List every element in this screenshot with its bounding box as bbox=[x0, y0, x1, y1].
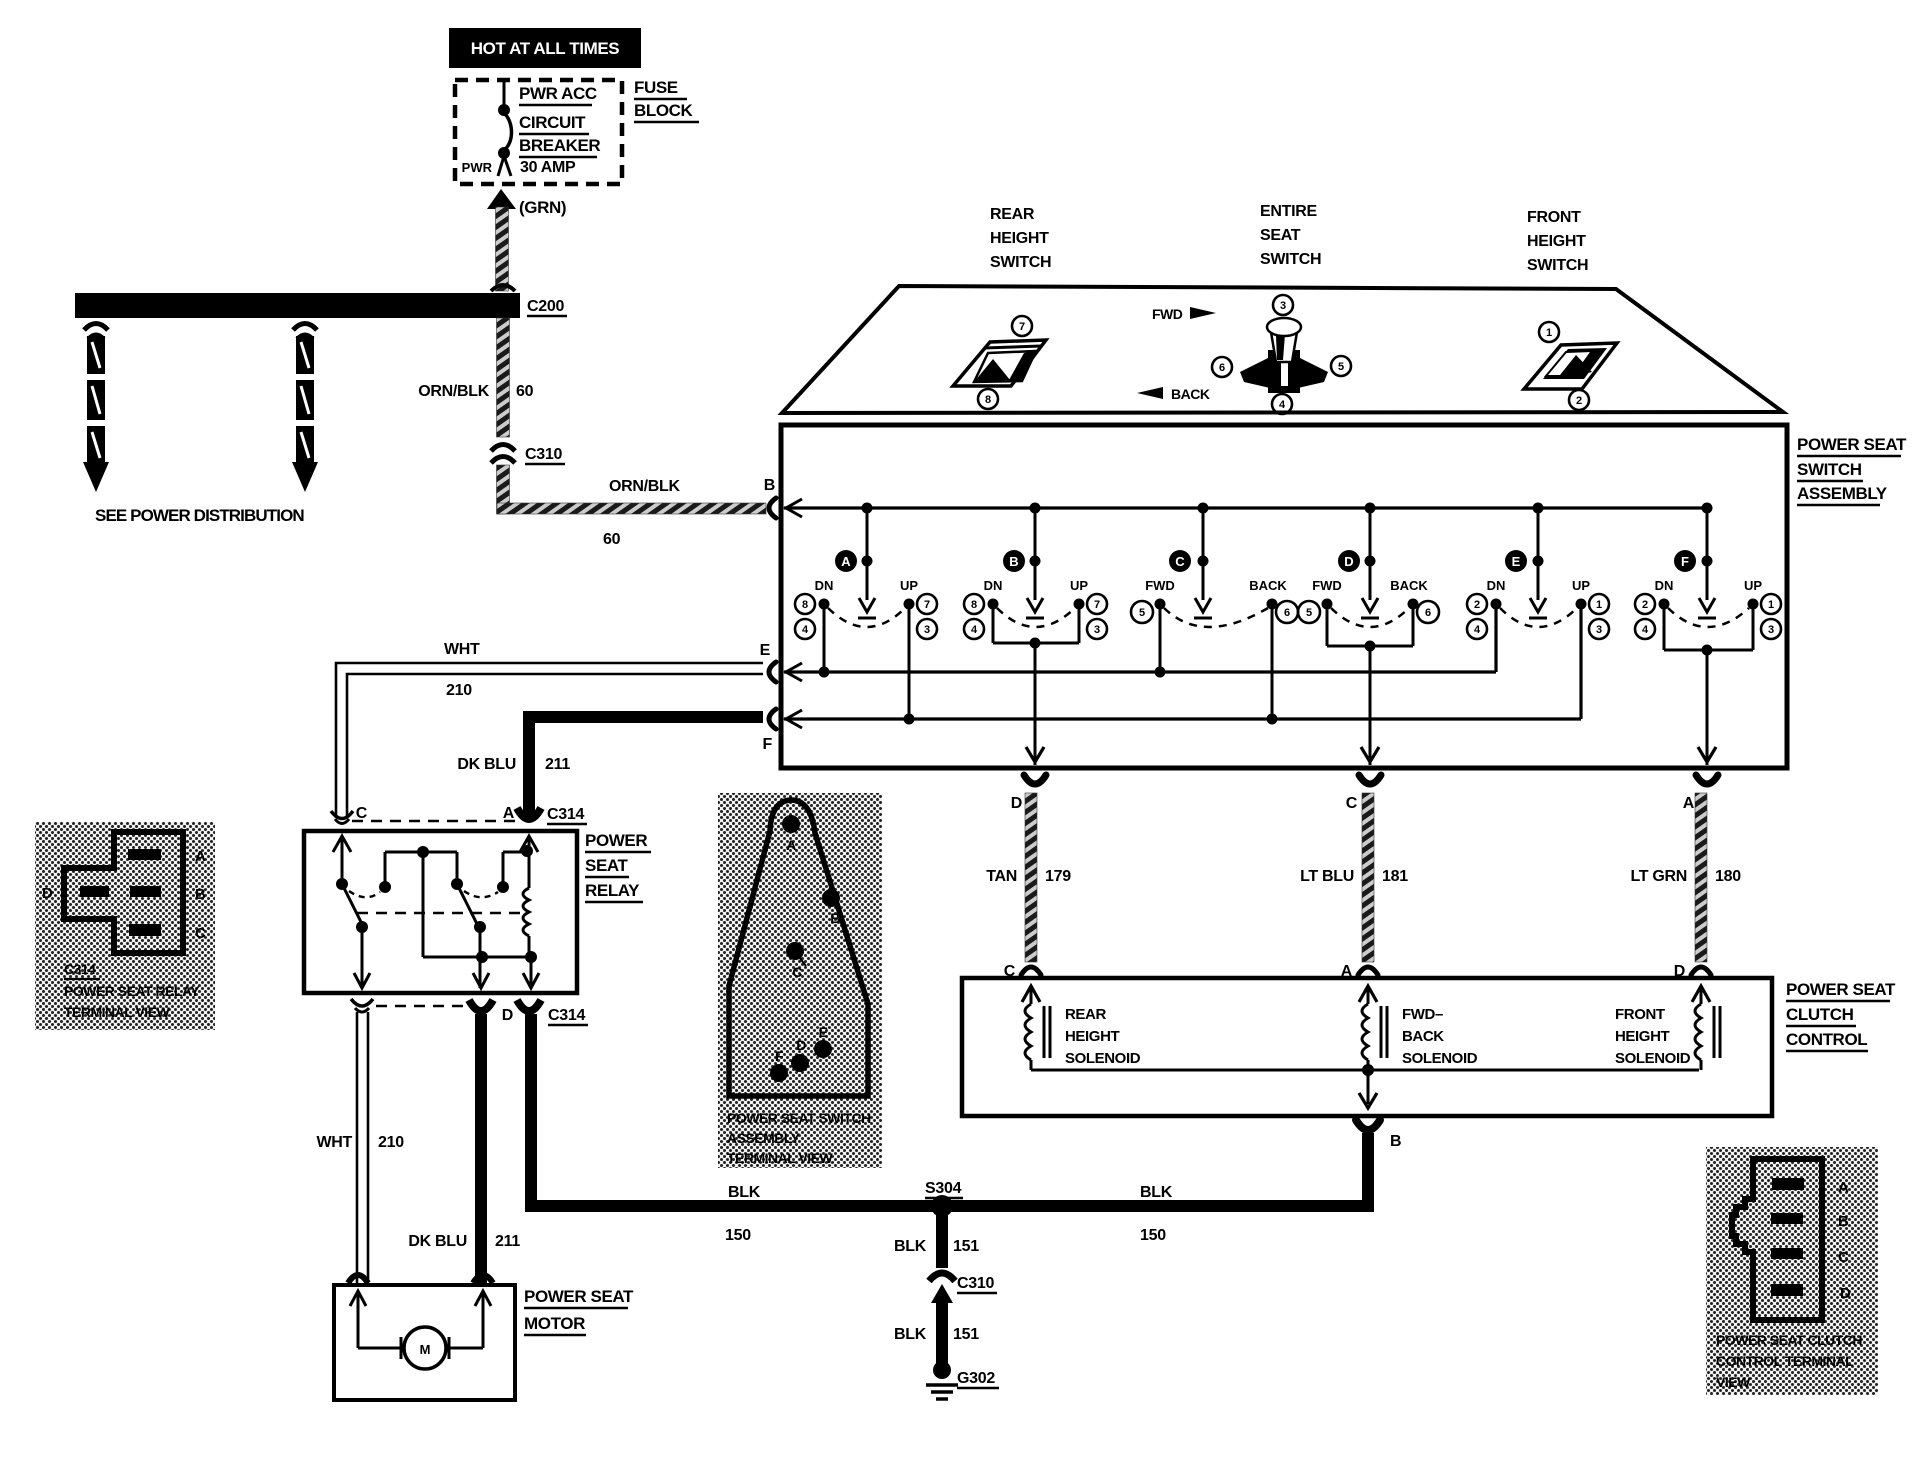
svg-text:A: A bbox=[195, 848, 206, 865]
terminal D bbox=[791, 1037, 809, 1072]
label ENTIRE SEAT SWITCH bbox=[1260, 203, 1321, 268]
label FRONT HEIGHT SWITCH bbox=[1527, 209, 1588, 274]
switch E label bbox=[1505, 550, 1527, 572]
clutch control internal common wire bbox=[1031, 1064, 1699, 1108]
svg-text:FUSE: FUSE bbox=[634, 78, 678, 97]
svg-text:F: F bbox=[763, 736, 773, 753]
svg-text:C314: C314 bbox=[547, 806, 584, 823]
svg-text:7: 7 bbox=[924, 599, 930, 611]
svg-text:FWD–: FWD– bbox=[1402, 1006, 1443, 1023]
svg-text:1: 1 bbox=[1596, 599, 1602, 611]
svg-text:HEIGHT: HEIGHT bbox=[1615, 1028, 1670, 1045]
pin 4 bbox=[1272, 394, 1292, 414]
svg-text:SWITCH: SWITCH bbox=[1260, 251, 1321, 268]
svg-text:3: 3 bbox=[924, 624, 930, 636]
switch D pin 6 bbox=[1417, 601, 1439, 623]
svg-text:LT BLU: LT BLU bbox=[1300, 868, 1354, 885]
svg-text:179: 179 bbox=[1045, 868, 1071, 885]
label POWER SEAT CLUTCH CONTROL bbox=[1786, 980, 1896, 1051]
switch A wiper bbox=[858, 503, 876, 619]
label G302 bbox=[957, 1370, 999, 1388]
switch D pin 5 bbox=[1298, 601, 1320, 623]
svg-text:C314: C314 bbox=[64, 961, 96, 977]
switch F pin 3 bbox=[1761, 619, 1781, 639]
slot B bbox=[130, 886, 161, 897]
clutch terminal C bbox=[1004, 963, 1041, 1002]
slot A bbox=[1772, 1178, 1804, 1190]
entire seat switch joystick bbox=[1240, 318, 1328, 393]
svg-text:ORN/BLK: ORN/BLK bbox=[609, 478, 681, 495]
switch B wiper bbox=[1026, 503, 1044, 619]
svg-text:FRONT: FRONT bbox=[1527, 209, 1581, 226]
svg-text:180: 180 bbox=[1715, 868, 1741, 885]
switch C stems to E and F buses bbox=[1155, 604, 1278, 725]
svg-text:F: F bbox=[1681, 554, 1689, 569]
wire BLK 150 (relay to S304 to clutch B) bbox=[531, 1014, 1368, 1206]
svg-text:BACK: BACK bbox=[1390, 578, 1428, 593]
pin 1 bbox=[1539, 322, 1559, 342]
svg-text:LT GRN: LT GRN bbox=[1630, 868, 1687, 885]
svg-text:FWD: FWD bbox=[1152, 306, 1183, 322]
switch assembly connector outline bbox=[729, 800, 868, 1096]
label C314 bbox=[547, 806, 587, 824]
label POWER SEAT MOTOR bbox=[524, 1287, 634, 1335]
svg-text:UP: UP bbox=[1572, 578, 1590, 593]
label C314 terminal view bbox=[64, 961, 200, 1020]
motor M bbox=[358, 1291, 483, 1369]
connector C200 (bulkhead bar) bbox=[75, 285, 520, 318]
svg-text:S304: S304 bbox=[925, 1180, 962, 1197]
svg-text:POWER SEAT CLUTCH: POWER SEAT CLUTCH bbox=[1716, 1332, 1862, 1348]
svg-text:CIRCUIT: CIRCUIT bbox=[519, 113, 586, 132]
svg-text:B: B bbox=[1838, 1213, 1849, 1230]
fwd-back solenoid coil bbox=[1362, 986, 1387, 1070]
label ORN/BLK 60 (horizontal) bbox=[603, 478, 681, 548]
fuse block (dashed box) bbox=[455, 80, 622, 184]
rear height solenoid coil bbox=[1025, 986, 1050, 1070]
svg-text:1: 1 bbox=[1546, 327, 1552, 339]
svg-text:SEAT: SEAT bbox=[585, 856, 628, 875]
label BLK 151 bbox=[894, 1238, 979, 1255]
connector C314 (relay bottom) bbox=[351, 999, 541, 1012]
switch A label bbox=[835, 550, 857, 572]
switch A contacts bbox=[815, 578, 919, 627]
svg-text:B: B bbox=[830, 910, 840, 926]
svg-text:E: E bbox=[1512, 554, 1521, 569]
power seat clutch control box bbox=[962, 978, 1772, 1116]
svg-text:5: 5 bbox=[1338, 361, 1344, 373]
switch A pin 7 bbox=[917, 594, 937, 614]
clutch control terminal view (halftone) bbox=[1706, 1147, 1878, 1395]
wire LT BLU 181 bbox=[1362, 793, 1374, 962]
svg-text:3: 3 bbox=[1768, 624, 1774, 636]
svg-text:8: 8 bbox=[802, 599, 808, 611]
svg-text:BREAKER: BREAKER bbox=[519, 136, 600, 155]
svg-text:6: 6 bbox=[1219, 362, 1225, 374]
svg-text:M: M bbox=[420, 1342, 431, 1357]
slot A bbox=[128, 849, 161, 860]
label FUSE BLOCK bbox=[634, 78, 699, 122]
terminal F bbox=[770, 1048, 788, 1082]
svg-text:C: C bbox=[1838, 1249, 1849, 1266]
svg-text:BLK: BLK bbox=[1140, 1184, 1173, 1201]
svg-text:4: 4 bbox=[971, 624, 978, 636]
slot B bbox=[1771, 1213, 1803, 1224]
switch F label bbox=[1674, 550, 1696, 572]
svg-text:6: 6 bbox=[1284, 607, 1290, 619]
svg-text:PWR ACC: PWR ACC bbox=[519, 84, 597, 103]
svg-text:B: B bbox=[1009, 554, 1018, 569]
wire TAN 179 bbox=[1025, 793, 1037, 962]
svg-text:MOTOR: MOTOR bbox=[524, 1314, 585, 1333]
switch E pin 1 bbox=[1589, 594, 1609, 614]
svg-text:A: A bbox=[786, 837, 796, 853]
switch E wiper bbox=[1529, 503, 1547, 619]
svg-text:4: 4 bbox=[802, 624, 809, 636]
label LT GRN 180 bbox=[1630, 868, 1741, 885]
label DK BLU 211 (lower) bbox=[408, 1233, 520, 1250]
svg-text:151: 151 bbox=[953, 1238, 979, 1255]
svg-text:C314: C314 bbox=[548, 1007, 585, 1024]
label WHT 210 bbox=[444, 641, 480, 699]
svg-text:181: 181 bbox=[1382, 868, 1408, 885]
svg-text:8: 8 bbox=[985, 394, 991, 406]
relay coil bbox=[520, 836, 538, 957]
svg-text:(GRN): (GRN) bbox=[519, 198, 566, 217]
label rear height solenoid bbox=[1065, 1006, 1141, 1067]
switch E pin 4 bbox=[1467, 619, 1487, 639]
svg-text:TAN: TAN bbox=[986, 868, 1017, 885]
terminal B bbox=[764, 477, 802, 518]
svg-text:VIEW: VIEW bbox=[1716, 1374, 1751, 1390]
svg-text:DN: DN bbox=[984, 578, 1003, 593]
svg-text:C: C bbox=[356, 805, 368, 822]
svg-text:C: C bbox=[792, 964, 802, 980]
label FWD arrow bbox=[1152, 306, 1216, 322]
svg-text:DK BLU: DK BLU bbox=[408, 1233, 467, 1250]
switch C pin 6 bbox=[1276, 601, 1298, 623]
power seat switch panel (perspective view) bbox=[782, 286, 1783, 413]
switch B contacts bbox=[984, 578, 1089, 627]
terminal F bbox=[763, 709, 802, 753]
svg-text:8: 8 bbox=[971, 599, 977, 611]
switch F pin 1 bbox=[1761, 594, 1781, 614]
svg-text:150: 150 bbox=[725, 1227, 751, 1244]
ground G302 bbox=[926, 1361, 958, 1399]
svg-text:7: 7 bbox=[1094, 599, 1100, 611]
svg-text:C310: C310 bbox=[957, 1275, 994, 1292]
svg-text:5: 5 bbox=[1139, 607, 1145, 619]
svg-text:SOLENOID: SOLENOID bbox=[1065, 1050, 1141, 1067]
label front height solenooid bbox=[1615, 1006, 1691, 1067]
svg-text:2: 2 bbox=[1642, 599, 1648, 611]
slot C bbox=[129, 924, 161, 936]
relay contact 1 (from C) bbox=[333, 836, 457, 933]
label C310 (lower) bbox=[957, 1275, 997, 1293]
svg-text:SEAT: SEAT bbox=[1260, 227, 1301, 244]
svg-text:D: D bbox=[42, 885, 53, 902]
slot D bbox=[1771, 1284, 1803, 1296]
switch F pin 4 bbox=[1635, 619, 1655, 639]
switch E pin 3 bbox=[1589, 619, 1609, 639]
wire to power distribution at x=96 bbox=[83, 324, 109, 493]
label POWER SEAT RELAY bbox=[585, 831, 651, 902]
switch A stems to E and F buses bbox=[819, 604, 915, 725]
switch C label bbox=[1169, 550, 1191, 572]
circuit breaker PWR ACC 30 AMP bbox=[498, 80, 512, 176]
label DK BLU 211 bbox=[457, 756, 570, 773]
terminal B bbox=[822, 889, 840, 926]
svg-text:ORN/BLK: ORN/BLK bbox=[418, 383, 490, 400]
terminal E bbox=[814, 1024, 832, 1058]
svg-text:4: 4 bbox=[1474, 624, 1481, 636]
svg-text:C: C bbox=[195, 925, 206, 942]
pin 7 bbox=[1012, 316, 1032, 336]
svg-text:210: 210 bbox=[446, 682, 472, 699]
svg-text:TERMINAL VIEW: TERMINAL VIEW bbox=[64, 1004, 171, 1020]
slot D bbox=[80, 886, 109, 897]
wire BLK 151 (S304 to C310) bbox=[936, 1206, 948, 1268]
label switch assembly terminal view bbox=[727, 1110, 871, 1166]
svg-text:POWER: POWER bbox=[585, 831, 647, 850]
svg-text:SOLENOID: SOLENOID bbox=[1402, 1050, 1478, 1067]
label ORN/BLK 60 bbox=[418, 383, 533, 400]
terminal E bbox=[760, 642, 802, 682]
svg-text:G302: G302 bbox=[957, 1370, 995, 1387]
svg-text:UP: UP bbox=[900, 578, 918, 593]
switch B pin 7 bbox=[1087, 594, 1107, 614]
svg-text:ASSEMBLY: ASSEMBLY bbox=[727, 1130, 801, 1146]
svg-text:WHT: WHT bbox=[316, 1134, 352, 1151]
switch B label bbox=[1003, 550, 1025, 572]
output terminal C bbox=[1346, 775, 1381, 812]
switch E contacts bbox=[1487, 578, 1591, 627]
splice S304 bbox=[925, 1180, 963, 1217]
svg-text:DN: DN bbox=[1487, 578, 1506, 593]
switch F contacts bbox=[1655, 578, 1763, 627]
wire BLK 151 (C310 to G302) bbox=[936, 1300, 948, 1364]
switch B pin 3 bbox=[1087, 619, 1107, 639]
label C314 (bottom) bbox=[548, 1007, 588, 1025]
clutch terminal B bbox=[1356, 1120, 1401, 1150]
svg-text:UP: UP bbox=[1070, 578, 1088, 593]
svg-text:A: A bbox=[841, 554, 851, 569]
svg-text:1: 1 bbox=[1768, 599, 1774, 611]
label BLK 150 (left) bbox=[725, 1184, 761, 1244]
wire WHT 210 (terminal E to relay C) bbox=[336, 663, 763, 818]
svg-text:60: 60 bbox=[603, 531, 621, 548]
svg-text:A: A bbox=[1838, 1179, 1849, 1196]
svg-text:E: E bbox=[760, 642, 771, 659]
bus wire F bbox=[784, 608, 1581, 719]
switch D contacts bbox=[1312, 578, 1428, 627]
svg-text:C: C bbox=[1175, 554, 1185, 569]
svg-text:CONTROL TERMINAL: CONTROL TERMINAL bbox=[1716, 1353, 1854, 1369]
svg-text:4: 4 bbox=[1642, 624, 1649, 636]
switch A pin 3 bbox=[917, 619, 937, 639]
bus wire E bbox=[784, 608, 1496, 672]
svg-text:7: 7 bbox=[1019, 321, 1025, 333]
label POWER SEAT SWITCH ASSEMBLY bbox=[1797, 435, 1907, 505]
wire ORN/BLK 60 (C310 to terminal B) bbox=[497, 465, 767, 514]
svg-text:3: 3 bbox=[1596, 624, 1602, 636]
svg-text:DN: DN bbox=[815, 578, 834, 593]
svg-text:2: 2 bbox=[1474, 599, 1480, 611]
svg-text:UP: UP bbox=[1744, 578, 1762, 593]
svg-text:HEIGHT: HEIGHT bbox=[1527, 233, 1586, 250]
slot C bbox=[1771, 1248, 1803, 1259]
svg-text:5: 5 bbox=[1306, 607, 1312, 619]
power seat motor box bbox=[334, 1285, 515, 1400]
label C310 bbox=[525, 446, 565, 464]
clutch control connector outline bbox=[1732, 1159, 1822, 1320]
svg-text:B: B bbox=[1390, 1133, 1401, 1150]
svg-text:D: D bbox=[1344, 554, 1353, 569]
front height switch paddle bbox=[1524, 343, 1617, 389]
svg-text:WHT: WHT bbox=[444, 641, 480, 658]
svg-text:HOT AT ALL TIMES: HOT AT ALL TIMES bbox=[471, 39, 620, 58]
switch C contacts bbox=[1145, 578, 1287, 627]
C314 connector outline bbox=[64, 832, 183, 953]
switch C wiper bbox=[1194, 503, 1212, 619]
svg-text:POWER SEAT SWITCH: POWER SEAT SWITCH bbox=[727, 1110, 871, 1126]
wire to power distribution at x=305 bbox=[292, 324, 318, 493]
svg-text:SEE POWER DISTRIBUTION: SEE POWER DISTRIBUTION bbox=[95, 506, 304, 525]
C314 relay terminal view (halftone) bbox=[35, 822, 215, 1030]
wire WHT 210 (relay to motor) bbox=[357, 1012, 368, 1283]
rear height switch paddle bbox=[953, 340, 1046, 386]
svg-text:BACK: BACK bbox=[1171, 386, 1210, 402]
switch F link and output A drop bbox=[1664, 604, 1753, 765]
label clutch control terminal view bbox=[1716, 1332, 1862, 1390]
switch E pin 2 bbox=[1467, 594, 1487, 614]
svg-text:F: F bbox=[775, 1048, 784, 1064]
clutch terminal A bbox=[1341, 963, 1378, 1002]
svg-text:BACK: BACK bbox=[1249, 578, 1287, 593]
pin 5 bbox=[1331, 356, 1351, 376]
motor terminal connectors bbox=[348, 1275, 493, 1306]
switch B pin 8 bbox=[964, 594, 984, 614]
svg-text:FWD: FWD bbox=[1312, 578, 1342, 593]
svg-text:D: D bbox=[502, 1007, 513, 1024]
switch F wiper bbox=[1698, 503, 1716, 619]
svg-text:B: B bbox=[195, 886, 206, 903]
svg-text:SWITCH: SWITCH bbox=[1797, 460, 1862, 479]
svg-text:BLK: BLK bbox=[894, 1238, 927, 1255]
wire DK BLU 211 (relay D to motor) bbox=[475, 1014, 487, 1283]
svg-text:SWITCH: SWITCH bbox=[990, 254, 1051, 271]
switch F pin 2 bbox=[1635, 594, 1655, 614]
svg-text:2: 2 bbox=[1576, 395, 1582, 407]
label fwd-back solenoid bbox=[1402, 1006, 1478, 1067]
svg-text:HEIGHT: HEIGHT bbox=[990, 230, 1049, 247]
svg-text:REAR: REAR bbox=[990, 206, 1035, 223]
relay contact 2 bbox=[451, 852, 527, 933]
label BACK arrow bbox=[1137, 386, 1210, 402]
svg-text:C310: C310 bbox=[525, 446, 562, 463]
wire DK BLU 211 (terminal F to relay A) bbox=[529, 717, 763, 818]
switch C pin 5 bbox=[1131, 601, 1153, 623]
svg-text:D: D bbox=[796, 1037, 806, 1053]
svg-text:D: D bbox=[1674, 963, 1685, 980]
svg-text:FRONT: FRONT bbox=[1615, 1006, 1665, 1023]
svg-text:151: 151 bbox=[953, 1326, 979, 1343]
pin 6 bbox=[1212, 357, 1232, 377]
svg-text:6: 6 bbox=[1425, 607, 1431, 619]
svg-text:BACK: BACK bbox=[1402, 1028, 1444, 1045]
svg-text:POWER SEAT: POWER SEAT bbox=[1797, 435, 1907, 454]
label TAN 179 bbox=[986, 868, 1071, 885]
svg-text:BLK: BLK bbox=[728, 1184, 761, 1201]
svg-text:POWER SEAT: POWER SEAT bbox=[1786, 980, 1896, 999]
pin 8 bbox=[978, 389, 998, 409]
svg-text:BLK: BLK bbox=[894, 1326, 927, 1343]
svg-text:PWR: PWR bbox=[462, 160, 493, 175]
label WHT 210 (lower) bbox=[316, 1134, 404, 1151]
connector C310 bbox=[491, 445, 515, 464]
relay mechanical link (dashed) bbox=[357, 912, 522, 914]
label C200 bbox=[527, 298, 567, 316]
svg-text:DN: DN bbox=[1655, 578, 1674, 593]
svg-text:POWER SEAT RELAY: POWER SEAT RELAY bbox=[64, 983, 200, 999]
svg-text:210: 210 bbox=[378, 1134, 404, 1151]
label LT BLU 181 bbox=[1300, 868, 1408, 885]
svg-text:CONTROL: CONTROL bbox=[1786, 1030, 1867, 1049]
svg-text:3: 3 bbox=[1280, 300, 1286, 312]
switch A pin 8 bbox=[795, 594, 815, 614]
svg-text:211: 211 bbox=[545, 756, 570, 773]
svg-text:B: B bbox=[764, 477, 775, 494]
svg-text:DK BLU: DK BLU bbox=[457, 756, 516, 773]
terminal C bbox=[786, 942, 806, 980]
svg-text:A: A bbox=[503, 805, 515, 822]
svg-text:TERMINAL VIEW: TERMINAL VIEW bbox=[727, 1150, 834, 1166]
svg-text:C: C bbox=[1004, 963, 1016, 980]
terminal A bbox=[782, 815, 800, 853]
clutch terminal D bbox=[1674, 963, 1711, 1002]
svg-text:E: E bbox=[819, 1024, 828, 1040]
front height solenooid coil bbox=[1695, 986, 1720, 1070]
svg-text:RELAY: RELAY bbox=[585, 881, 640, 900]
svg-text:4: 4 bbox=[1279, 399, 1286, 411]
svg-text:SWITCH: SWITCH bbox=[1527, 257, 1588, 274]
wire LT GRN 180 bbox=[1695, 793, 1707, 962]
svg-text:BLOCK: BLOCK bbox=[634, 101, 694, 120]
connector C310 (lower) bbox=[929, 1273, 955, 1303]
output terminal D bbox=[1011, 775, 1046, 812]
svg-text:SOLENOID: SOLENOID bbox=[1615, 1050, 1691, 1067]
bus wire B (top) bbox=[784, 506, 1707, 509]
output terminal A bbox=[1683, 775, 1718, 812]
pin 2 bbox=[1569, 390, 1589, 410]
svg-text:CLUTCH: CLUTCH bbox=[1786, 1005, 1854, 1024]
label REAR HEIGHT SWITCH bbox=[990, 206, 1051, 271]
svg-text:ENTIRE: ENTIRE bbox=[1260, 203, 1318, 220]
label HOT AT ALL TIMES bbox=[449, 28, 641, 68]
pin 3 bbox=[1273, 295, 1293, 315]
svg-text:ASSEMBLY: ASSEMBLY bbox=[1797, 484, 1888, 503]
label BLK 150 (right) bbox=[1140, 1184, 1173, 1244]
switch D link and output C drop bbox=[1327, 604, 1413, 765]
label PWR ACC CIRCUIT BREAKER 30 AMP bbox=[462, 84, 601, 176]
svg-text:211: 211 bbox=[495, 1233, 520, 1250]
label BLK 151 (lower) bbox=[894, 1326, 979, 1343]
switch A pin 4 bbox=[795, 619, 815, 639]
svg-text:D: D bbox=[1011, 795, 1022, 812]
wire GRN up-arrow into fuse block bbox=[487, 189, 516, 291]
svg-text:A: A bbox=[1683, 795, 1695, 812]
svg-text:C200: C200 bbox=[527, 298, 564, 315]
